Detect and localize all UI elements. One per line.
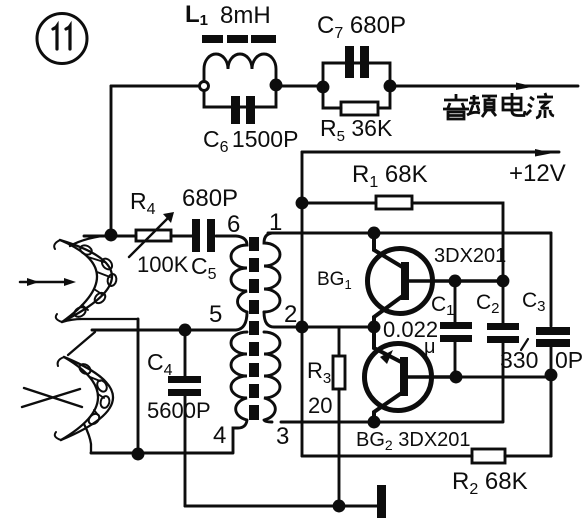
svg-text:6: 6 (227, 211, 240, 238)
svg-text:BG1: BG1 (317, 269, 352, 292)
arrow into upper head (20, 281, 70, 284)
svg-text:C6 1500P: C6 1500P (203, 126, 298, 156)
resistor R5 body (341, 102, 378, 115)
svg-text:5600P: 5600P (147, 398, 211, 423)
transformer terminal 5 lead (92, 312, 247, 330)
svg-text:1: 1 (269, 209, 282, 236)
node C4 top (180, 325, 190, 335)
transformer left winding lower section (231, 332, 247, 452)
wire R1 right segment to BG1 base (412, 203, 503, 281)
svg-text:C4: C4 (147, 349, 173, 379)
resistor R2 body (472, 449, 505, 463)
wire upper head return down (137, 319, 140, 453)
svg-text:R4: R4 (130, 188, 156, 218)
node left of C7 (318, 82, 328, 92)
svg-text:+12V: +12V (509, 160, 566, 187)
wire +12V rail from supply corner (302, 151, 559, 154)
node R1/C2/BG1 base (498, 276, 508, 286)
wire C3 bottom lead to rail (550, 347, 553, 456)
svg-text:C5: C5 (191, 253, 217, 283)
wire emitter tie to supply rail (302, 326, 374, 329)
wire right rail lower (550, 375, 553, 456)
transformer right winding lower section (264, 332, 280, 422)
variable resistor R4 (84, 235, 192, 238)
ground bar (377, 485, 386, 518)
svg-text:BG2 3DX201: BG2 3DX201 (356, 429, 471, 453)
capacitor C1 (454, 281, 457, 373)
svg-text:2: 2 (284, 301, 297, 328)
transformer left winding top section (216, 236, 247, 312)
svg-text:3: 3 (276, 423, 289, 450)
transformer right winding top section (264, 233, 280, 312)
arrowhead +12V (535, 149, 553, 157)
wire emitter line terminal3 to C2 bottom (281, 421, 503, 424)
node BG2 base / C1 bottom (451, 372, 461, 382)
transistor BG1 (368, 234, 504, 326)
inductor L1 core dashes (202, 35, 276, 43)
svg-text:C3: C3 (522, 289, 546, 315)
label audio current (hand drawn hanzi) (443, 93, 554, 119)
svg-text:C2: C2 (476, 291, 500, 317)
svg-text:C7 680P: C7 680P (317, 12, 406, 42)
capacitor C2 (502, 281, 505, 421)
node upper head return (133, 449, 143, 459)
svg-text:0P: 0P (555, 347, 583, 373)
node rail terminal2 (297, 322, 307, 332)
capacitor C6 plates (231, 96, 255, 124)
svg-text:5: 5 (209, 301, 222, 328)
resistor R1 body (376, 196, 412, 209)
svg-text:680P: 680P (182, 185, 238, 212)
hanzi liu (526, 93, 554, 118)
R4 arrow (129, 218, 168, 257)
svg-text:8mH: 8mH (220, 2, 271, 29)
svg-text:4: 4 (213, 422, 226, 449)
hanzi dian (503, 93, 525, 116)
svg-text:R2 68K: R2 68K (452, 468, 528, 498)
figure number text 11 (53, 26, 70, 49)
node BG1 base / C1 top (450, 276, 460, 286)
wire tank left horizontal (111, 85, 199, 88)
capacitor C7 plates (345, 46, 369, 78)
wire R2 row (302, 455, 551, 458)
node C3 bottom (546, 370, 556, 380)
capacitor C3 plates (536, 327, 570, 347)
transformer terminal 2 lead (264, 312, 302, 327)
svg-text:R3: R3 (307, 358, 331, 387)
svg-text:L1: L1 (185, 1, 208, 29)
capacitor C5 plates (192, 219, 215, 252)
tick leader to C3 value (521, 339, 528, 350)
node right of C7 (385, 81, 395, 91)
svg-text:20: 20 (308, 393, 332, 418)
wire right rail down to C3 (550, 233, 553, 326)
arrowhead audio output (516, 83, 534, 91)
svg-text:C1: C1 (431, 293, 455, 319)
wire collector rail terminal 1 to right rail (268, 232, 551, 235)
erase head cross mark (22, 388, 82, 407)
node R4 left (106, 230, 116, 240)
svg-text:100K: 100K (137, 252, 189, 277)
erase head lower (55, 332, 113, 453)
wire R5 bottom loop (323, 87, 390, 108)
node BG2 emitter (369, 417, 379, 427)
figure number circle 11 (37, 14, 87, 64)
node open terminal left of L1 (200, 82, 209, 91)
node R3 bottom (334, 501, 344, 511)
inductor L1 coil (204, 54, 276, 81)
record head upper (54, 235, 138, 322)
node BG1 emitter / BG2 collector (369, 322, 379, 332)
svg-text:330: 330 (500, 347, 538, 373)
hanzi yin (443, 94, 469, 119)
wire bottom head return bus (91, 452, 233, 455)
node junction right of L1 (271, 80, 281, 90)
transformer core dashes (249, 237, 259, 420)
resistor R3 (338, 327, 341, 506)
wire tank bottom loop (204, 90, 276, 107)
svg-text:R1 68K: R1 68K (352, 161, 428, 191)
wire ground bus (185, 505, 378, 508)
wire top-left vertical from tank wire down to R4 node (110, 86, 113, 235)
wire C7 top loop (323, 63, 390, 87)
node BG1 collector (369, 228, 379, 238)
wire R1 left segment (302, 202, 376, 205)
wire between tank and C7 group (280, 85, 319, 88)
svg-text:R5 36K: R5 36K (320, 115, 393, 145)
wire main vertical supply rail (301, 152, 304, 456)
wire BG2 base to right rail (456, 376, 551, 379)
transistor BG2 (365, 328, 453, 421)
hanzi pin (467, 95, 497, 117)
node R1 left (297, 198, 307, 208)
wire audio output (394, 85, 578, 88)
capacitor C4 (184, 330, 187, 506)
svg-text:3DX201: 3DX201 (434, 245, 506, 267)
